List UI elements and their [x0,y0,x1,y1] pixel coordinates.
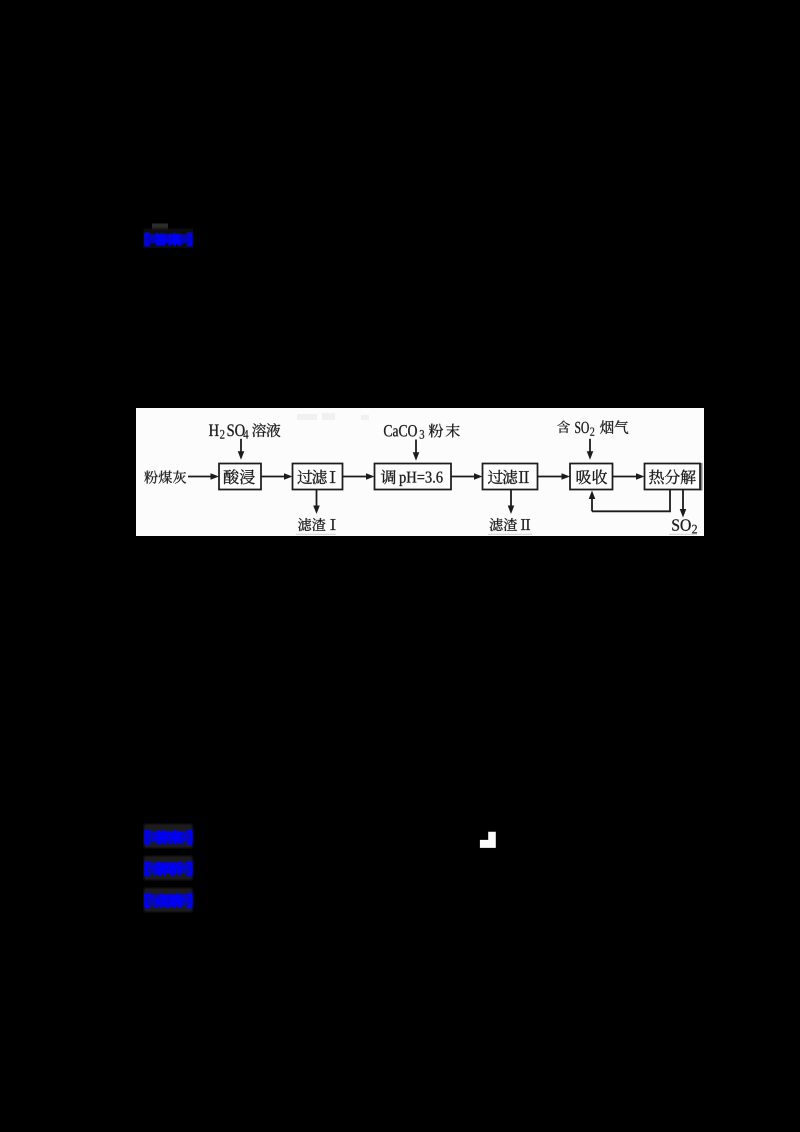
box 过滤Ⅱ (filter II) [483,464,538,490]
blue tag 2 【答案】 [144,824,193,848]
arrow 调pH to 过滤Ⅱ [451,473,483,480]
arrow 粉煤灰 to 酸浸 [188,473,219,480]
white diagram panel [136,408,704,536]
label H2SO4 溶液 [209,423,280,438]
arrow 酸浸 to 过滤Ⅰ [261,473,293,480]
arrow 过滤Ⅱ down to 滤渣Ⅱ [508,490,515,515]
arrow 过滤Ⅰ to 调pH [343,473,375,480]
box 热分解 (thermal decomposition) [645,463,703,491]
label CaCO3 粉末 [384,424,460,439]
box 调 pH=3.6 [375,464,452,490]
arrow 过滤Ⅱ to 吸收 [538,473,571,480]
arrow H2SO4溶液 into 酸浸 [238,439,245,460]
faint watermark smudge [297,413,369,420]
box 吸收 (absorb) [570,464,613,490]
label 含 SO2 烟气 [557,420,628,435]
label 滤渣Ⅰ [296,518,336,535]
label SO2 [669,519,697,534]
label 粉煤灰 (fly ash) [144,471,186,484]
arrow 吸收 to 热分解 [613,473,645,480]
arrow 含SO2烟气 into 吸收 [587,439,594,460]
box 酸浸 (acid leaching) [219,464,261,490]
blue tag 3 【解析】 [144,856,193,880]
white step/cursor mark [480,832,496,848]
recycle wire 热分解 bottom loop back to 吸收 [589,490,670,512]
label 滤渣Ⅱ [488,518,532,535]
arrow 热分解 down to SO2 [680,490,687,518]
arrow 过滤Ⅰ down to 滤渣Ⅰ [313,490,320,515]
gray patch above first blue tag [152,224,168,233]
blue tag 1 【答案】 (top) [144,229,194,249]
arrow CaCO3 into 调pH [413,440,420,461]
blue tag 4 【点睛】 [144,888,193,912]
box 过滤Ⅰ (filter I) [293,464,343,490]
